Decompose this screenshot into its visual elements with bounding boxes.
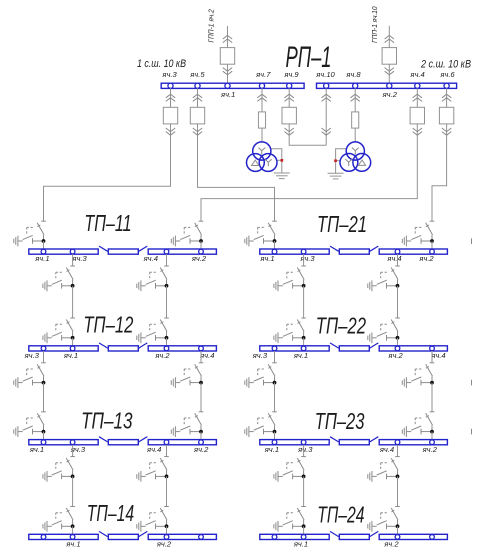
svg-text:яч.2: яч.2 (422, 445, 438, 454)
transformer TV2 (3-winding voltage transformer, яч.8) (328, 142, 371, 179)
circuit breaker cell, РП яч.6 (439, 107, 453, 124)
wire: cable ТП-12 яч.3 down to next ТП (43, 383, 45, 412)
wire: ТП-12 яч.1 switch to bus (72, 338, 74, 346)
svg-text:1 с.ш. 10 кВ: 1 с.ш. 10 кВ (137, 58, 186, 70)
load-break switch with earthing switch: ТП-12 яч.1 incoming (43, 318, 75, 343)
svg-text:яч.2: яч.2 (156, 540, 172, 549)
wire: cropped earthing-contact tick at right edge y=241.2 (471, 238, 473, 244)
wire: cropped earthing-contact tick at right edge y=431.6 (471, 429, 473, 435)
wire: ТП-23 яч.3 bus to outgoing switch (303, 445, 305, 457)
svg-text:яч.1: яч.1 (34, 254, 49, 263)
svg-text:яч.3: яч.3 (71, 254, 87, 263)
disconnector contacts (chevrons) below breaker, feeder ГПП-1 яч.10 (385, 68, 394, 75)
wire: feeder яч.5 drop from bus (197, 88, 199, 135)
wire: feeder яч.4 drop from bus (416, 88, 418, 135)
load-break switch with earthing switch: ТП-21 яч.2 incoming (402, 221, 434, 246)
wire: feeder яч.8 drop (354, 88, 356, 141)
load-break switch with earthing switch: ТП-21 яч.1 incoming (245, 221, 277, 246)
load-break switch with earthing switch: ТП-11 яч.3 outgoing (43, 266, 75, 291)
wire: cable ТП-23 яч.3 down to next ТП (303, 476, 305, 506)
load-break switch with earthing switch: ТП-22 яч.2 incoming (368, 318, 400, 343)
wire: cable ТП-21 яч.3 down to next ТП (303, 286, 305, 318)
load-break switch with earthing switch: ТП-11 яч.4 outgoing (137, 266, 169, 291)
svg-text:яч.4: яч.4 (430, 351, 445, 360)
wire: ТП-22 яч.3 bus to outgoing switch (274, 351, 276, 363)
wire: ТП-12 яч.2 switch to bus (166, 338, 168, 346)
disconnector contacts (chevrons) above breaker, feeder ГПП-1 яч.2 (223, 35, 232, 42)
busbar: ТП-24 sectioned bus (260, 531, 448, 539)
busbar: ТП-11 sectioned bus (29, 246, 217, 254)
svg-text:яч.10: яч.10 (315, 70, 335, 79)
svg-text:яч.1: яч.1 (293, 540, 308, 549)
svg-text:яч.3: яч.3 (252, 351, 268, 360)
load-break switch with earthing switch: ТП-24 яч.1 incoming (274, 507, 306, 532)
svg-text:яч.3: яч.3 (161, 70, 177, 79)
wire: cable ТП-23 яч.4 down to next ТП (397, 476, 399, 506)
disconnector contacts (chevrons) above breaker, яч.9 (285, 94, 294, 101)
disconnector contacts (chevrons) below breaker, РП яч.3 (166, 128, 175, 135)
fuse F1, feeder яч.7 (258, 112, 265, 128)
wire: ТП-11 яч.3 bus to outgoing switch (72, 254, 74, 266)
wire: incoming line from ГПП-1 яч.2 (227, 26, 229, 83)
svg-text:ТП–21: ТП–21 (317, 211, 367, 237)
wire: cable ТП-11 яч.3 down to next ТП (72, 286, 74, 318)
circuit breaker cell, feeder ГПП-1 яч.10 (382, 48, 396, 65)
wire: ТП-12 яч.4 bus to outgoing switch (200, 351, 202, 363)
wire: ТП-22 яч.1 switch to bus (303, 338, 305, 346)
disconnector contacts (chevrons) above breaker, feeder ГПП-1 яч.10 (385, 35, 394, 42)
load-break switch with earthing switch: ТП-23 яч.2 incoming (402, 412, 434, 437)
busbar: ТП-23 sectioned bus (260, 437, 448, 445)
svg-text:2 с.ш. 10 кВ: 2 с.ш. 10 кВ (420, 59, 471, 71)
disconnector contacts (chevrons) below breaker, яч.9 (285, 128, 294, 135)
load-break switch with earthing switch: ТП-23 яч.4 outgoing (368, 457, 400, 482)
wire: incoming line from ГПП-1 яч.10 (388, 26, 390, 84)
disconnector contacts (chevrons) above breaker, РП яч.6 (442, 94, 451, 101)
wire: cable ТП-13 яч.4 down to next ТП (166, 476, 168, 506)
load-break switch with earthing switch: ТП-13 яч.4 outgoing (137, 457, 169, 482)
fuse F2, feeder яч.8 (352, 112, 359, 128)
wire: cropped earthing-contact tick at right edge y=382.6 (471, 380, 473, 386)
circuit breaker cell, РП яч.3 (163, 107, 177, 124)
wire: ТП-22 яч.4 bus to outgoing switch (431, 351, 433, 363)
wire: ТП-13 яч.3 bus to outgoing switch (72, 445, 74, 457)
disconnector contacts (chevrons) upper, яч.10 (322, 94, 331, 101)
wire: ТП-11 яч.4 bus to outgoing switch (166, 254, 168, 266)
wire: ТП-24 яч.2 switch to bus (397, 526, 399, 534)
wire: cable ТП-12 яч.4 down to next ТП (200, 383, 202, 412)
svg-text:ТП–24: ТП–24 (317, 502, 364, 528)
svg-text:яч.1: яч.1 (259, 254, 274, 263)
svg-text:яч.1: яч.1 (29, 445, 44, 454)
svg-text:яч.1: яч.1 (63, 351, 78, 360)
svg-text:ТП–14: ТП–14 (87, 500, 134, 526)
wire: feeder яч.6 drop from bus (446, 88, 448, 135)
load-break switch with earthing switch: ТП-14 яч.1 incoming (43, 507, 75, 532)
svg-text:яч.2: яч.2 (387, 351, 403, 360)
busbar: ТП-14 sectioned bus (29, 531, 217, 539)
disconnector contacts (chevrons) below breaker, РП яч.4 (413, 128, 422, 135)
load-break switch with earthing switch: ТП-22 яч.3 outgoing (245, 363, 277, 388)
busbar: ТП-22 sectioned bus (260, 343, 448, 351)
svg-text:ТП–11: ТП–11 (84, 210, 131, 236)
wire: cable ТП-22 яч.4 down to next ТП (431, 383, 433, 412)
svg-text:яч.2: яч.2 (154, 351, 170, 360)
load-break switch with earthing switch: ТП-11 яч.2 incoming (171, 221, 203, 246)
svg-text:ТП–23: ТП–23 (315, 408, 365, 434)
wire: ТП-21 яч.2 switch to bus (431, 241, 433, 249)
svg-text:яч.4: яч.4 (386, 254, 401, 263)
load-break switch with earthing switch: ТП-12 яч.4 outgoing (171, 363, 203, 388)
svg-text:яч.3: яч.3 (24, 351, 40, 360)
svg-text:яч.2: яч.2 (191, 254, 207, 263)
wire: ТП-22 яч.2 switch to bus (397, 338, 399, 346)
disconnector contacts (chevrons) below breaker, РП яч.6 (442, 128, 451, 135)
load-break switch with earthing switch: ТП-11 яч.1 incoming (14, 221, 46, 246)
wire: ТП-23 яч.1 switch to bus (274, 432, 276, 440)
circuit breaker cell, РП яч.5 (190, 107, 204, 124)
svg-text:яч.4: яч.4 (143, 254, 158, 263)
load-break switch with earthing switch: ТП-23 яч.3 outgoing (274, 457, 306, 482)
svg-text:яч.9: яч.9 (283, 70, 299, 79)
disconnector contacts (chevrons) below breaker, РП яч.5 (193, 128, 202, 135)
load-break switch with earthing switch: ТП-23 яч.1 incoming (245, 412, 277, 437)
wire: bus-tie drop яч.10 (325, 88, 327, 145)
busbar: ТП-12 sectioned bus (29, 343, 217, 351)
svg-text:яч.4: яч.4 (409, 70, 424, 79)
svg-text:яч.3: яч.3 (297, 445, 313, 454)
wire: feeder яч.7 drop (261, 88, 263, 142)
svg-text:яч.1: яч.1 (220, 90, 235, 99)
load-break switch with earthing switch: ТП-13 яч.3 outgoing (43, 457, 75, 482)
wire: ТП-23 яч.4 bus to outgoing switch (397, 445, 399, 457)
busbar: РП-1 section 1 (1 с.ш. 10 кВ) (161, 83, 304, 88)
svg-text:ТП–22: ТП–22 (316, 313, 366, 339)
wire: яч.3 to ТП-11 яч.1 (44, 135, 171, 221)
svg-text:яч.2: яч.2 (383, 540, 399, 549)
disconnector contacts (chevrons) above breaker, РП яч.3 (166, 94, 175, 101)
svg-text:ТП–12: ТП–12 (83, 311, 133, 337)
svg-text:яч.1: яч.1 (264, 445, 279, 454)
svg-text:яч.2: яч.2 (193, 445, 209, 454)
wire: ТП-21 яч.3 bus to outgoing switch (303, 254, 305, 266)
wire: bus-tie drop яч.9 (289, 88, 326, 145)
svg-text:яч.4: яч.4 (146, 445, 161, 454)
wire: яч.5 to ТП-21 яч.1 (198, 135, 275, 221)
svg-text:ГПП-1 яч.10: ГПП-1 яч.10 (370, 6, 379, 43)
busbar: ТП-21 sectioned bus (260, 246, 448, 254)
disconnector contacts (chevrons), РП яч.8 (351, 94, 360, 101)
wire: ТП-11 яч.1 switch to bus (43, 241, 45, 249)
load-break switch with earthing switch: ТП-12 яч.3 outgoing (14, 363, 46, 388)
wire: feeder яч.3 drop from bus (170, 88, 172, 135)
wire: cable ТП-21 яч.4 down to next ТП (397, 286, 399, 318)
wire: ТП-14 яч.2 switch to bus (166, 526, 168, 534)
wire: ТП-21 яч.4 bus to outgoing switch (397, 254, 399, 266)
disconnector contacts (chevrons) lower, яч.10 (322, 128, 331, 135)
svg-text:ТП–13: ТП–13 (81, 407, 133, 433)
load-break switch with earthing switch: ТП-24 яч.2 incoming (368, 507, 400, 532)
load-break switch with earthing switch: ТП-22 яч.4 outgoing (402, 363, 434, 388)
load-break switch with earthing switch: ТП-13 яч.2 incoming (171, 412, 203, 437)
wire: ТП-13 яч.1 switch to bus (43, 432, 45, 440)
svg-text:яч.2: яч.2 (382, 90, 398, 99)
load-break switch with earthing switch: ТП-22 яч.1 incoming (274, 318, 306, 343)
svg-text:яч.6: яч.6 (439, 70, 455, 79)
bus-tie circuit breaker, яч.9 (282, 107, 296, 124)
load-break switch with earthing switch: ТП-13 яч.1 incoming (14, 412, 46, 437)
wire: ТП-13 яч.2 switch to bus (200, 432, 202, 440)
svg-text:ГПП-1 яч.2: ГПП-1 яч.2 (207, 8, 216, 42)
wire: cable ТП-13 яч.3 down to next ТП (72, 476, 74, 506)
busbar: РП-1 section 2 (2 с.ш. 10 кВ) (317, 83, 457, 88)
wire: ТП-23 яч.2 switch to bus (431, 432, 433, 440)
circuit breaker cell, feeder ГПП-1 яч.2 (220, 48, 234, 65)
wire: яч.6 to ТП-21 яч.2 (432, 135, 447, 221)
svg-text:яч.3: яч.3 (299, 254, 315, 263)
wire: ТП-24 яч.1 switch to bus (303, 526, 305, 534)
disconnector contacts (chevrons) below breaker, feeder ГПП-1 яч.2 (223, 68, 232, 75)
svg-text:яч.1: яч.1 (293, 351, 308, 360)
load-break switch with earthing switch: ТП-21 яч.4 outgoing (368, 266, 400, 291)
load-break switch with earthing switch: ТП-14 яч.2 incoming (137, 507, 169, 532)
disconnector contacts (chevrons) above breaker, РП яч.5 (193, 94, 202, 101)
load-break switch with earthing switch: ТП-12 яч.2 incoming (137, 318, 169, 343)
busbar: ТП-13 sectioned bus (29, 437, 217, 445)
svg-text:РП–1: РП–1 (286, 41, 332, 74)
wire: ТП-13 яч.4 bus to outgoing switch (166, 445, 168, 457)
disconnector contacts (chevrons) above breaker, РП яч.4 (413, 94, 422, 101)
wire: cable ТП-22 яч.3 down to next ТП (274, 383, 276, 412)
wire: ТП-14 яч.1 switch to bus (72, 526, 74, 534)
svg-text:яч.1: яч.1 (65, 540, 80, 549)
disconnector contacts (chevrons), РП яч.7 (257, 94, 266, 101)
svg-text:яч.4: яч.4 (379, 445, 394, 454)
wire: ТП-21 яч.1 switch to bus (274, 241, 276, 249)
svg-text:яч.5: яч.5 (189, 70, 205, 79)
wire: ТП-12 яч.3 bus to outgoing switch (43, 351, 45, 363)
svg-text:яч.7: яч.7 (255, 70, 271, 79)
transformer TV1 (3-winding voltage transformer, яч.7) (247, 142, 290, 179)
circuit breaker cell, РП яч.4 (410, 107, 424, 124)
svg-text:яч.2: яч.2 (418, 254, 434, 263)
wire: cable ТП-11 яч.4 down to next ТП (166, 286, 168, 318)
svg-text:яч.8: яч.8 (345, 70, 361, 79)
wire: ТП-11 яч.2 switch to bus (200, 241, 202, 249)
wire: яч.4 to ТП-11 яч.2 (201, 135, 417, 221)
load-break switch with earthing switch: ТП-21 яч.3 outgoing (274, 266, 306, 291)
